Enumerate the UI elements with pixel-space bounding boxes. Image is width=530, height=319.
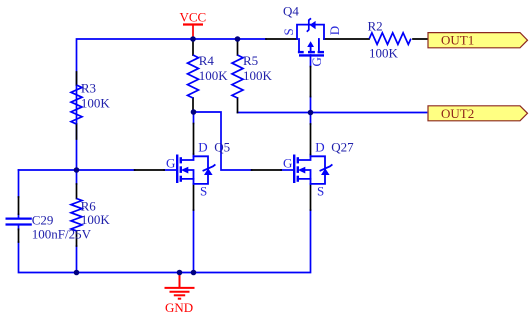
svg-text:100K: 100K [81, 212, 111, 227]
svg-text:S: S [317, 184, 324, 199]
svg-text:D: D [315, 140, 324, 155]
svg-text:D: D [327, 26, 342, 35]
svg-text:S: S [281, 28, 296, 35]
svg-text:G: G [166, 155, 175, 170]
svg-text:R3: R3 [81, 81, 96, 96]
svg-text:Q5: Q5 [214, 140, 230, 155]
svg-text:D: D [198, 140, 207, 155]
svg-text:G: G [309, 57, 324, 66]
svg-text:100nF/25V: 100nF/25V [32, 227, 92, 242]
svg-text:C29: C29 [32, 213, 54, 228]
svg-text:GND: GND [165, 300, 193, 315]
svg-text:Q27: Q27 [331, 140, 354, 155]
svg-text:100K: 100K [199, 68, 229, 83]
svg-text:OUT2: OUT2 [441, 106, 474, 121]
svg-text:R4: R4 [199, 53, 215, 68]
svg-text:Q4: Q4 [283, 3, 299, 18]
svg-text:100K: 100K [81, 96, 111, 111]
svg-text:G: G [283, 155, 292, 170]
svg-text:R5: R5 [243, 53, 258, 68]
svg-text:OUT1: OUT1 [441, 33, 474, 48]
svg-text:R2: R2 [368, 19, 383, 34]
svg-text:100K: 100K [369, 45, 399, 60]
svg-text:100K: 100K [243, 68, 273, 83]
svg-text:VCC: VCC [180, 10, 207, 25]
svg-text:S: S [200, 184, 207, 199]
